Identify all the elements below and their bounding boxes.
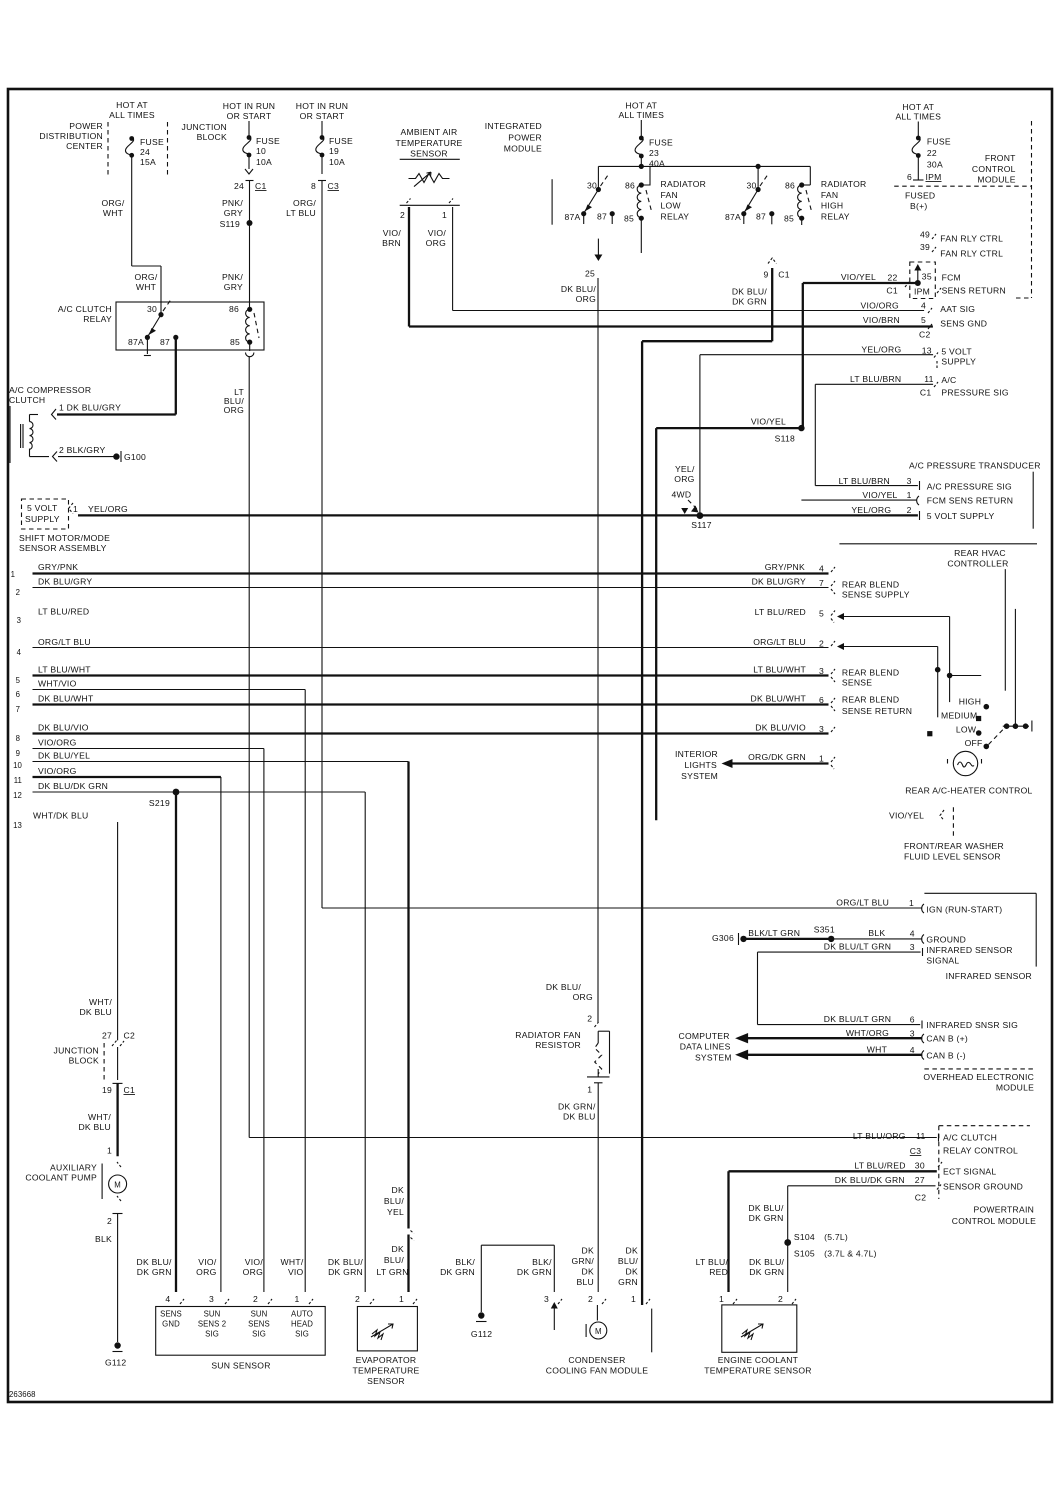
svg-text:DK BLU: DK BLU xyxy=(78,1122,111,1132)
row 1 GRY/PNK to rear hvac pin 4 xyxy=(11,562,835,579)
ambient air temperature sensor xyxy=(395,127,462,159)
svg-text:FUSE: FUSE xyxy=(927,137,951,147)
svg-text:BLOCK: BLOCK xyxy=(69,1056,99,1066)
svg-text:RELAY: RELAY xyxy=(661,212,690,222)
svg-text:23: 23 xyxy=(649,148,659,158)
svg-text:AUXILIARY: AUXILIARY xyxy=(50,1163,97,1173)
svg-text:SENS 2: SENS 2 xyxy=(198,1320,226,1329)
svg-text:6: 6 xyxy=(907,172,912,182)
svg-text:11: 11 xyxy=(916,1131,925,1141)
svg-text:DK BLU/GRY: DK BLU/GRY xyxy=(752,577,806,587)
svg-text:WHT/DK BLU: WHT/DK BLU xyxy=(33,811,89,821)
svg-text:G100: G100 xyxy=(124,452,146,462)
svg-text:LT BLU/ORG: LT BLU/ORG xyxy=(853,1131,906,1141)
svg-text:FUSED: FUSED xyxy=(905,191,935,201)
PDC dashed boundary xyxy=(108,122,168,176)
svg-text:RELAY: RELAY xyxy=(83,314,112,324)
connector 8 C3 xyxy=(311,157,339,191)
svg-text:OR START: OR START xyxy=(300,111,345,121)
rear a/c-heater control lamp xyxy=(905,751,1032,795)
svg-text:1: 1 xyxy=(11,570,15,579)
svg-text:CAN B (-): CAN B (-) xyxy=(926,1051,966,1061)
hot in run or start (fuse 10) xyxy=(223,101,275,121)
svg-text:8: 8 xyxy=(311,181,316,191)
svg-text:SENSE: SENSE xyxy=(842,678,872,688)
svg-text:HEAD: HEAD xyxy=(291,1320,313,1329)
svg-text:1: 1 xyxy=(909,898,914,908)
radiator fan high relay xyxy=(725,166,867,225)
svg-text:DK BLU/: DK BLU/ xyxy=(749,1257,785,1267)
svg-text:YEL: YEL xyxy=(387,1207,404,1217)
svg-text:3: 3 xyxy=(910,1029,915,1039)
svg-text:10A: 10A xyxy=(256,157,272,167)
svg-text:INTEGRATED: INTEGRATED xyxy=(485,121,542,131)
svg-text:10: 10 xyxy=(256,146,266,156)
svg-text:SIGNAL: SIGNAL xyxy=(926,956,959,966)
svg-text:OFF: OFF xyxy=(965,738,983,748)
svg-text:30: 30 xyxy=(746,181,756,191)
svg-text:LT BLU/RED: LT BLU/RED xyxy=(854,1161,905,1171)
svg-text:DK BLU/LT GRN: DK BLU/LT GRN xyxy=(824,942,891,952)
svg-text:DK: DK xyxy=(626,1267,638,1277)
svg-text:YEL/ORG: YEL/ORG xyxy=(851,505,891,515)
sun sensor wire labels xyxy=(137,1257,304,1277)
svg-text:C2: C2 xyxy=(915,1193,927,1203)
svg-text:CONDENSER: CONDENSER xyxy=(568,1355,625,1365)
svg-text:1: 1 xyxy=(719,1294,724,1304)
svg-text:CONTROL MODULE: CONTROL MODULE xyxy=(952,1216,1036,1226)
svg-text:LT BLU/RED: LT BLU/RED xyxy=(38,607,89,617)
svg-text:POWERTRAIN: POWERTRAIN xyxy=(974,1205,1035,1215)
svg-text:SUN: SUN xyxy=(251,1310,268,1319)
row 12 DK BLU/DK GRN with S219 xyxy=(13,781,365,1292)
svg-text:LT BLU/: LT BLU/ xyxy=(696,1257,729,1267)
svg-text:LT BLU/RED: LT BLU/RED xyxy=(755,607,806,617)
svg-text:WHT/ORG: WHT/ORG xyxy=(846,1028,889,1038)
svg-text:13: 13 xyxy=(13,821,22,830)
svg-text:LOW: LOW xyxy=(661,201,682,211)
FCM pin 39 fan rly ctrl xyxy=(920,242,1003,259)
hot at all times (fuse 24) xyxy=(109,100,155,120)
svg-text:PNK/: PNK/ xyxy=(222,272,243,282)
svg-text:3: 3 xyxy=(17,616,21,625)
svg-text:1: 1 xyxy=(587,1085,592,1095)
svg-text:GRY/PNK: GRY/PNK xyxy=(38,562,78,572)
svg-text:DK BLU/LT GRN: DK BLU/LT GRN xyxy=(824,1014,891,1024)
fan relay supply bus xyxy=(598,158,810,169)
svg-text:GRY/PNK: GRY/PNK xyxy=(765,562,805,572)
svg-text:DK BLU/WHT: DK BLU/WHT xyxy=(38,694,94,704)
svg-text:GROUND: GROUND xyxy=(926,935,966,945)
svg-text:S351: S351 xyxy=(814,925,835,935)
relay pin 86 coil xyxy=(229,304,259,342)
svg-text:BLU/: BLU/ xyxy=(384,1255,404,1265)
svg-text:LT BLU/WHT: LT BLU/WHT xyxy=(753,665,806,675)
svg-text:SUN SENSOR: SUN SENSOR xyxy=(211,1361,270,1371)
wire BLK/GRY to G100 xyxy=(53,445,147,462)
svg-text:HOT IN RUN: HOT IN RUN xyxy=(223,101,275,111)
svg-text:JUNCTION: JUNCTION xyxy=(54,1046,99,1056)
svg-text:DATA LINES: DATA LINES xyxy=(680,1042,731,1052)
svg-text:86: 86 xyxy=(229,304,239,314)
svg-text:REAR BLEND: REAR BLEND xyxy=(842,695,899,705)
svg-text:A/C CLUTCH: A/C CLUTCH xyxy=(58,304,112,314)
svg-text:3: 3 xyxy=(907,476,912,486)
wire WHT CAN B- xyxy=(735,1045,966,1061)
svg-text:2: 2 xyxy=(16,588,20,597)
relay pin 85 xyxy=(230,337,254,357)
svg-text:5: 5 xyxy=(819,609,824,619)
svg-text:2: 2 xyxy=(819,639,824,649)
svg-text:FRONT: FRONT xyxy=(985,153,1016,163)
wire YEL/ORG S117 to FCM pin 13 xyxy=(700,345,976,516)
svg-text:2: 2 xyxy=(588,1294,593,1304)
svg-text:S117: S117 xyxy=(691,520,711,530)
row 13 WHT/DK BLU xyxy=(13,811,117,1041)
svg-text:11: 11 xyxy=(924,374,933,384)
svg-text:11: 11 xyxy=(14,776,22,785)
row 5 LT BLU/WHT to rear hvac pin 3 xyxy=(16,665,900,688)
svg-text:SENS: SENS xyxy=(160,1310,182,1319)
svg-text:GRN/: GRN/ xyxy=(572,1256,595,1266)
wire DK BLU/DK GRN PCM pin 27 sensor ground xyxy=(748,1175,1023,1292)
svg-text:VIO/BRN: VIO/BRN xyxy=(863,315,900,325)
svg-text:TEMPERATURE: TEMPERATURE xyxy=(352,1366,419,1376)
svg-text:5 VOLT: 5 VOLT xyxy=(27,503,58,513)
svg-text:24: 24 xyxy=(140,147,150,157)
svg-text:87: 87 xyxy=(756,212,766,222)
svg-text:30: 30 xyxy=(147,304,157,314)
evaporator connector pins xyxy=(355,1294,417,1304)
junction block dashed boundary xyxy=(54,1043,118,1080)
integrated power module label xyxy=(485,121,552,225)
svg-text:DK BLU/: DK BLU/ xyxy=(748,1203,784,1213)
svg-text:SENS RETURN: SENS RETURN xyxy=(942,286,1006,296)
svg-text:FUSE: FUSE xyxy=(256,136,280,146)
svg-text:DK GRN: DK GRN xyxy=(440,1267,475,1277)
svg-text:HIGH: HIGH xyxy=(959,697,981,707)
svg-text:ORG: ORG xyxy=(196,1267,216,1277)
svg-text:1 DK BLU/GRY: 1 DK BLU/GRY xyxy=(59,403,121,413)
FCM pin 4 AAT sig xyxy=(860,301,975,315)
svg-text:1: 1 xyxy=(399,1294,404,1304)
svg-text:SYSTEM: SYSTEM xyxy=(695,1053,732,1063)
wire VIO/BRN AAT pin2 to FCM pin5 xyxy=(382,207,933,327)
svg-text:OR START: OR START xyxy=(227,111,272,121)
svg-text:A/C: A/C xyxy=(941,375,956,385)
svg-text:FUSE: FUSE xyxy=(140,137,164,147)
svg-text:87A: 87A xyxy=(128,337,144,347)
evaporator temperature sensor box xyxy=(352,1307,419,1387)
svg-text:DK GRN/: DK GRN/ xyxy=(558,1102,596,1112)
wire VIO/YEL S118 to FCM pin 22/35 xyxy=(803,272,918,428)
relay pin 87A xyxy=(128,335,151,356)
svg-text:6: 6 xyxy=(819,695,824,705)
svg-text:AMBIENT AIR: AMBIENT AIR xyxy=(400,127,457,137)
rear hvac controller top boundary xyxy=(839,544,1037,569)
svg-text:85: 85 xyxy=(784,214,794,224)
wire LT BLU/BRN transducer pin3 to FCM pin 11 xyxy=(815,374,1009,486)
svg-text:1: 1 xyxy=(107,1146,112,1156)
row 7 DK BLU/WHT to rear hvac pin 6 xyxy=(16,694,913,717)
svg-text:BLK/LT GRN: BLK/LT GRN xyxy=(748,928,800,938)
svg-text:ORG/: ORG/ xyxy=(102,198,125,208)
auxiliary coolant pump xyxy=(25,1162,126,1226)
svg-text:COOLANT PUMP: COOLANT PUMP xyxy=(25,1173,97,1183)
5 volt supply dashed box xyxy=(22,499,129,529)
condenser cooling fan module xyxy=(544,1294,652,1376)
svg-text:G112: G112 xyxy=(471,1329,492,1339)
svg-text:FUSE: FUSE xyxy=(329,136,353,146)
svg-text:DK GRN: DK GRN xyxy=(749,1213,784,1223)
svg-text:SIG: SIG xyxy=(295,1330,309,1339)
wire ORG/LT BLU to OEM pin 1 IGN xyxy=(322,898,1002,915)
svg-text:2: 2 xyxy=(907,505,912,515)
A/C clutch relay box xyxy=(116,302,264,350)
svg-text:1: 1 xyxy=(819,754,824,764)
svg-text:FLUID LEVEL SENSOR: FLUID LEVEL SENSOR xyxy=(904,852,1001,862)
relay pin 30 xyxy=(147,298,172,317)
wire ORG/LT BLU from C3 down to IGN line xyxy=(286,181,322,909)
condenser fan wire labels xyxy=(517,1246,638,1288)
svg-text:FAN RLY CTRL: FAN RLY CTRL xyxy=(940,234,1003,244)
svg-text:HOT AT: HOT AT xyxy=(116,100,148,110)
svg-text:WHT: WHT xyxy=(136,282,157,292)
svg-text:SENSOR: SENSOR xyxy=(410,149,448,159)
svg-text:HIGH: HIGH xyxy=(821,201,843,211)
powertrain control module dashed box xyxy=(939,1126,1036,1226)
svg-text:RADIATOR: RADIATOR xyxy=(661,179,707,189)
wire PNK/GRY with S119 xyxy=(220,198,253,308)
svg-text:5: 5 xyxy=(16,676,21,685)
svg-text:SYSTEM: SYSTEM xyxy=(681,771,718,781)
svg-text:4: 4 xyxy=(921,301,926,311)
wire DK BLU/ORG to radiator fan resistor xyxy=(561,278,598,1022)
svg-text:YEL/ORG: YEL/ORG xyxy=(861,345,901,355)
svg-text:1: 1 xyxy=(907,490,912,500)
svg-text:LT BLU/WHT: LT BLU/WHT xyxy=(38,665,91,675)
hot at all times (fuse 23) xyxy=(618,101,664,121)
svg-text:YEL/: YEL/ xyxy=(675,464,695,474)
wire BLK to G112 left xyxy=(95,1214,118,1343)
svg-text:CONTROL: CONTROL xyxy=(972,164,1016,174)
svg-text:DK GRN: DK GRN xyxy=(517,1267,552,1277)
svg-text:10: 10 xyxy=(13,761,22,770)
svg-text:(3.7L & 4.7L): (3.7L & 4.7L) xyxy=(824,1249,877,1259)
splice S104 S105 xyxy=(784,1232,876,1259)
svg-text:FAN: FAN xyxy=(661,190,678,200)
svg-text:12: 12 xyxy=(13,791,22,800)
svg-text:HOT AT: HOT AT xyxy=(625,101,657,111)
wire LT BLU/ORG to PCM pin 11 xyxy=(249,1131,1018,1156)
sun sensor connector pins xyxy=(165,1294,313,1304)
svg-text:SIG: SIG xyxy=(252,1330,266,1339)
svg-text:TEMPERATURE SENSOR: TEMPERATURE SENSOR xyxy=(704,1366,811,1376)
svg-text:ORG/LT BLU: ORG/LT BLU xyxy=(836,898,889,908)
FCM pin 5 sens gnd xyxy=(863,315,987,340)
row 9 VIO/ORG down to sun sensor pin 2 xyxy=(16,738,264,1293)
svg-text:DK BLU: DK BLU xyxy=(563,1112,596,1122)
svg-text:C2: C2 xyxy=(919,330,931,340)
svg-text:VIO/YEL: VIO/YEL xyxy=(841,272,876,282)
wire DK BLU/LT GRN OEM pin3 infrared sensor signal xyxy=(758,942,1019,1031)
svg-text:LT BLU: LT BLU xyxy=(286,208,316,218)
svg-text:40A: 40A xyxy=(649,159,665,169)
ground G306 xyxy=(712,933,747,945)
svg-text:BLU: BLU xyxy=(577,1277,594,1287)
row 8 DK BLU/VIO to rear hvac pin 3 xyxy=(16,723,835,744)
svg-text:CENTER: CENTER xyxy=(66,141,103,151)
hot at all times (fuse 22) xyxy=(895,102,941,122)
svg-text:1: 1 xyxy=(73,504,78,514)
svg-text:ORG/: ORG/ xyxy=(293,198,316,208)
svg-text:ALL TIMES: ALL TIMES xyxy=(109,110,155,120)
svg-text:9: 9 xyxy=(16,749,20,758)
AAT connector xyxy=(400,199,460,221)
YEL/ORG 5-volt bus xyxy=(78,514,918,516)
svg-text:HOT AT: HOT AT xyxy=(902,102,934,112)
svg-text:7: 7 xyxy=(819,578,824,588)
ground G112 right xyxy=(471,1312,492,1339)
connector arrow below fuse 10 xyxy=(245,157,253,174)
svg-text:FAN: FAN xyxy=(821,190,838,200)
svg-text:ALL TIMES: ALL TIMES xyxy=(618,110,664,120)
svg-text:DK BLU/DK GRN: DK BLU/DK GRN xyxy=(835,1175,905,1185)
junction block connector 27 C2 xyxy=(102,1031,135,1047)
fuse F23 40A xyxy=(635,120,673,169)
svg-text:WHT/: WHT/ xyxy=(88,1112,111,1122)
power distribution center label xyxy=(39,121,103,151)
svg-text:SUPPLY: SUPPLY xyxy=(941,357,976,367)
FCM 35 IPM sub-connector xyxy=(910,262,1006,299)
fuse F22 30A xyxy=(912,122,951,170)
svg-text:BLK: BLK xyxy=(95,1234,112,1244)
svg-text:BLK: BLK xyxy=(868,928,885,938)
wire VIO/YEL S118 branch left and down xyxy=(656,428,801,820)
infrared sensor bracket xyxy=(924,893,1036,981)
svg-text:FUSE: FUSE xyxy=(649,138,673,148)
svg-text:ENGINE COOLANT: ENGINE COOLANT xyxy=(718,1355,799,1365)
svg-text:15A: 15A xyxy=(140,157,156,167)
svg-text:LT BLU/BRN: LT BLU/BRN xyxy=(839,476,890,486)
svg-text:10A: 10A xyxy=(329,157,345,167)
svg-text:DK BLU/YEL: DK BLU/YEL xyxy=(38,751,90,761)
svg-text:OVERHEAD ELECTRONIC: OVERHEAD ELECTRONIC xyxy=(923,1072,1034,1082)
svg-text:INFRARED SENSOR: INFRARED SENSOR xyxy=(946,971,1032,981)
low relay output connector pin 25 xyxy=(585,239,602,279)
svg-text:BLOCK: BLOCK xyxy=(197,132,227,142)
svg-text:C2: C2 xyxy=(124,1031,136,1041)
svg-text:AUTO: AUTO xyxy=(291,1310,313,1319)
svg-text:DK BLU/: DK BLU/ xyxy=(561,284,597,294)
hot in run or start (fuse 19) xyxy=(296,101,348,121)
svg-text:SENSOR ASSEMBLY: SENSOR ASSEMBLY xyxy=(19,543,107,553)
wire WHT/ORG CAN B+ xyxy=(735,1028,968,1044)
row 4 ORG/LT BLU to rear hvac pin 2 xyxy=(17,637,835,657)
svg-text:RELAY: RELAY xyxy=(821,212,850,222)
svg-text:2: 2 xyxy=(400,210,405,220)
svg-text:3: 3 xyxy=(910,942,915,952)
svg-text:S119: S119 xyxy=(220,219,240,229)
svg-text:DK GRN: DK GRN xyxy=(328,1267,363,1277)
svg-text:G306: G306 xyxy=(712,933,734,943)
svg-text:YEL/ORG: YEL/ORG xyxy=(88,504,128,514)
svg-text:CONTROLLER: CONTROLLER xyxy=(947,559,1008,569)
svg-text:COMPUTER: COMPUTER xyxy=(679,1031,730,1041)
svg-text:27: 27 xyxy=(915,1175,925,1185)
svg-text:SENSE SUPPLY: SENSE SUPPLY xyxy=(842,590,910,600)
svg-text:FCM SENS RETURN: FCM SENS RETURN xyxy=(927,496,1013,506)
svg-text:BLU/: BLU/ xyxy=(384,1196,404,1206)
svg-text:4: 4 xyxy=(910,929,915,939)
evaporator temp sensor wire labels xyxy=(328,1244,409,1277)
svg-text:CLUTCH: CLUTCH xyxy=(9,395,45,405)
FCM pin 49 fan rly ctrl xyxy=(920,230,1003,244)
svg-text:ORG: ORG xyxy=(573,992,593,1002)
svg-text:39: 39 xyxy=(920,242,930,252)
svg-text:DK BLU/WHT: DK BLU/WHT xyxy=(751,694,807,704)
radiator fan resistor xyxy=(515,982,609,1292)
svg-text:COOLING FAN MODULE: COOLING FAN MODULE xyxy=(546,1366,648,1376)
svg-text:27: 27 xyxy=(102,1031,112,1041)
svg-text:MEDIUM: MEDIUM xyxy=(941,711,977,721)
svg-text:5: 5 xyxy=(921,315,926,325)
svg-text:22: 22 xyxy=(927,148,937,158)
svg-text:GRY: GRY xyxy=(224,208,243,218)
svg-text:GND: GND xyxy=(162,1320,180,1329)
svg-text:S104: S104 xyxy=(794,1232,815,1242)
svg-text:3: 3 xyxy=(819,724,824,734)
svg-text:4: 4 xyxy=(819,564,824,574)
svg-text:A/C COMPRESSOR: A/C COMPRESSOR xyxy=(9,385,91,395)
svg-text:DK BLU/: DK BLU/ xyxy=(137,1257,173,1267)
svg-text:VIO/YEL: VIO/YEL xyxy=(862,490,897,500)
engine coolant temperature sensor box xyxy=(704,1305,811,1376)
svg-text:19: 19 xyxy=(102,1085,112,1095)
svg-text:ORG/DK GRN: ORG/DK GRN xyxy=(748,752,806,762)
svg-text:ORG/: ORG/ xyxy=(135,272,158,282)
svg-text:24: 24 xyxy=(234,181,244,191)
svg-text:86: 86 xyxy=(785,181,795,191)
svg-text:BRN: BRN xyxy=(382,238,401,248)
svg-text:86: 86 xyxy=(625,181,635,191)
svg-text:LIGHTS: LIGHTS xyxy=(684,760,717,770)
svg-text:VIO/ORG: VIO/ORG xyxy=(38,766,77,776)
svg-text:SENS: SENS xyxy=(248,1320,270,1329)
svg-text:DK GRN: DK GRN xyxy=(732,297,767,307)
svg-text:REAR BLEND: REAR BLEND xyxy=(842,668,899,678)
ECT sensor wire labels xyxy=(696,1257,785,1277)
svg-text:C1: C1 xyxy=(778,270,790,280)
A/C compressor clutch xyxy=(9,385,91,463)
svg-text:2: 2 xyxy=(107,1216,112,1226)
svg-text:ORG: ORG xyxy=(576,294,596,304)
wire BLK/DK GRN condenser pin 3 to G112 right xyxy=(440,1245,554,1312)
svg-text:7: 7 xyxy=(16,705,20,714)
svg-text:9: 9 xyxy=(763,270,768,280)
svg-text:2 BLK/GRY: 2 BLK/GRY xyxy=(59,445,106,455)
connector 24 C1 xyxy=(234,181,267,201)
svg-text:4: 4 xyxy=(165,1294,170,1304)
row 6 WHT/VIO down to sun sensor pin 1 xyxy=(16,679,306,1293)
wire BLK/LT GRN with S351 to OEM pin 4 ground xyxy=(744,925,967,945)
svg-text:CAN B (+): CAN B (+) xyxy=(926,1034,968,1044)
svg-text:SIG: SIG xyxy=(205,1330,219,1339)
svg-text:19: 19 xyxy=(329,146,339,156)
svg-text:B(+): B(+) xyxy=(910,201,927,211)
label WHT/DK BLU above junction block xyxy=(79,997,112,1017)
svg-text:8: 8 xyxy=(16,734,20,743)
